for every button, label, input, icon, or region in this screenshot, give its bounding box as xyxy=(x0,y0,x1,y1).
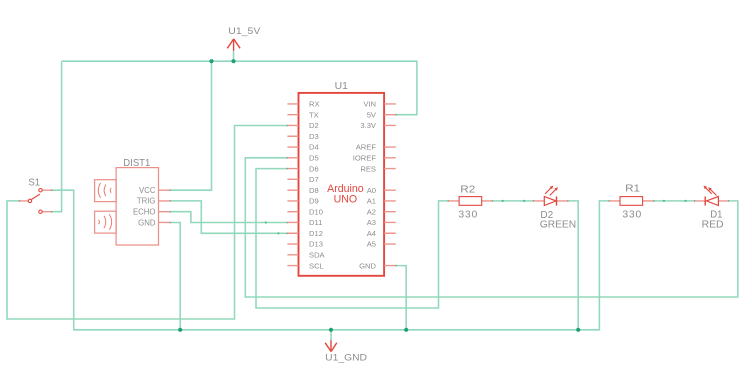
svg-text:D11: D11 xyxy=(309,218,322,227)
svg-text:D4: D4 xyxy=(309,143,319,152)
svg-text:D13: D13 xyxy=(309,240,323,249)
svg-text:A1: A1 xyxy=(367,197,376,206)
svg-text:A4: A4 xyxy=(367,229,376,238)
svg-text:A2: A2 xyxy=(367,207,376,216)
svg-text:U1: U1 xyxy=(335,81,349,92)
svg-text:SDA: SDA xyxy=(309,251,326,260)
svg-text:330: 330 xyxy=(458,210,478,221)
svg-text:IOREF: IOREF xyxy=(353,154,377,163)
svg-text:UNO: UNO xyxy=(334,194,358,206)
svg-text:RX: RX xyxy=(309,100,320,109)
svg-text:TRIG: TRIG xyxy=(137,197,156,206)
svg-text:GND: GND xyxy=(359,261,376,270)
svg-text:D8: D8 xyxy=(309,186,319,195)
svg-text:D6: D6 xyxy=(309,164,319,173)
svg-text:GREEN: GREEN xyxy=(540,219,576,230)
svg-text:3.3V: 3.3V xyxy=(360,121,377,130)
svg-text:A0: A0 xyxy=(367,186,376,195)
svg-text:5V: 5V xyxy=(367,110,377,119)
svg-text:A3: A3 xyxy=(367,218,376,227)
svg-text:D5: D5 xyxy=(309,154,319,163)
svg-text:R2: R2 xyxy=(460,184,475,195)
svg-text:DIST1: DIST1 xyxy=(123,158,150,169)
svg-text:D7: D7 xyxy=(309,175,319,184)
svg-text:D9: D9 xyxy=(309,197,319,206)
svg-text:AREF: AREF xyxy=(356,143,377,152)
svg-text:TX: TX xyxy=(309,110,319,119)
svg-text:VCC: VCC xyxy=(139,186,156,195)
svg-text:D12: D12 xyxy=(309,229,323,238)
svg-text:SCL: SCL xyxy=(309,261,324,270)
svg-text:VIN: VIN xyxy=(363,100,376,109)
svg-text:U1_5V: U1_5V xyxy=(228,26,260,36)
svg-text:U1_GND: U1_GND xyxy=(325,352,367,362)
svg-text:GND: GND xyxy=(138,218,156,227)
svg-text:330: 330 xyxy=(622,210,642,221)
svg-text:RED: RED xyxy=(702,220,724,231)
svg-text:D10: D10 xyxy=(309,207,323,216)
svg-text:ECHO: ECHO xyxy=(133,208,156,217)
svg-text:RES: RES xyxy=(360,164,376,173)
svg-text:A5: A5 xyxy=(367,240,376,249)
svg-text:R1: R1 xyxy=(625,184,640,195)
svg-text:D3: D3 xyxy=(309,132,319,141)
svg-text:D2: D2 xyxy=(309,121,319,130)
svg-text:S1: S1 xyxy=(28,177,40,188)
